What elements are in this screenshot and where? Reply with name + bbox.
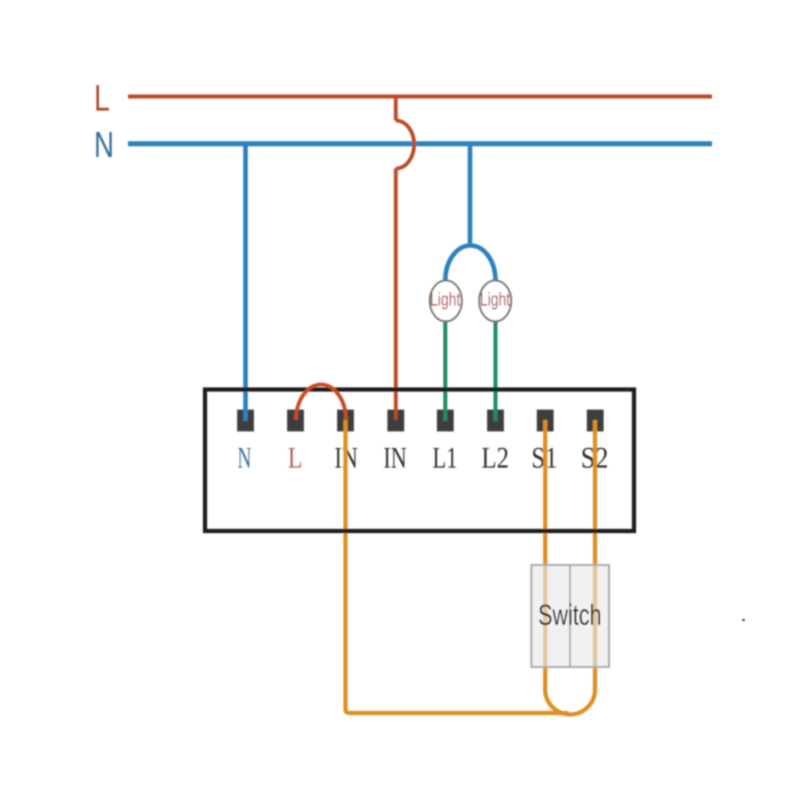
lamp Light1 circle (430, 281, 462, 322)
terminal label N (238, 448, 251, 468)
terminal L2 (487, 410, 504, 432)
wire red drop to terminal IN2 (394, 169, 398, 421)
wire red drop upper segment (394, 95, 398, 121)
lamp Light2 circle (479, 281, 511, 322)
wire orange jumper arch L to IN1 (296, 385, 346, 421)
terminal label S2 (583, 448, 608, 468)
lamp Light1 label (431, 292, 460, 309)
node N label (96, 132, 111, 157)
terminal label L2 (482, 448, 508, 468)
terminal L (287, 410, 304, 432)
terminal N (237, 410, 254, 432)
terminal IN1 (337, 410, 354, 432)
device box (205, 390, 634, 532)
terminal S2 (587, 410, 604, 432)
terminal label IN1 (335, 448, 357, 468)
switch box (531, 565, 609, 667)
wire red hop over N line (396, 121, 414, 169)
terminal label L1 (433, 448, 456, 468)
wire blue drop N line to lights (468, 144, 473, 247)
terminal label L (288, 448, 301, 468)
wire green light2 to terminal L2 (494, 320, 498, 421)
wire green light1 to terminal L1 (443, 320, 447, 421)
terminal L1 (437, 410, 454, 432)
wire N mains line (128, 141, 712, 146)
wire orange IN1 down and across to switch loop (346, 420, 569, 713)
wire L mains line (128, 95, 712, 99)
wire orange S1-S2 switch loop (545, 420, 595, 714)
terminal S1 (537, 410, 554, 432)
terminal IN2 (387, 410, 404, 432)
lamp Light2 label (481, 292, 510, 309)
terminal label IN2 (384, 448, 406, 468)
wire blue drop N line to terminal N (243, 144, 248, 421)
wire blue arch to lights (445, 246, 495, 281)
speck artifact (742, 619, 745, 622)
switch label (539, 604, 600, 625)
node L label (96, 85, 109, 111)
terminal label S1 (533, 448, 556, 468)
